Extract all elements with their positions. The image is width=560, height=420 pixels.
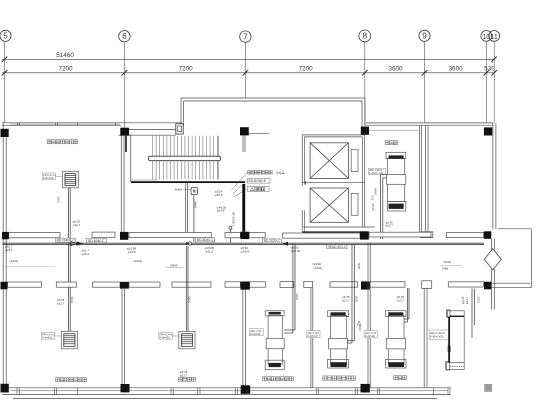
beam line office top bbox=[369, 129, 419, 131]
partition wall room4/room5 (pipes crossing corridor) bbox=[368, 243, 370, 388]
columns bottom wall bbox=[1, 384, 370, 394]
pipe label boxes bbox=[56, 238, 348, 249]
svg-text:7200: 7200 bbox=[58, 66, 73, 73]
svg-text:7: 7 bbox=[243, 32, 248, 41]
svg-text:DN40: DN40 bbox=[444, 260, 452, 264]
svg-text:K-9×410: K-9×410 bbox=[160, 336, 171, 340]
svg-text:φ25.4: φ25.4 bbox=[82, 252, 90, 256]
svg-text:φ12.7: φ12.7 bbox=[73, 223, 81, 227]
svg-text:BD-B040-C: BD-B040-C bbox=[197, 238, 214, 242]
dimension lines bbox=[2, 59, 495, 73]
svg-text:(2444): (2444) bbox=[314, 266, 323, 270]
lower corridor wall segments bbox=[8, 281, 484, 289]
room1 label bbox=[56, 378, 87, 382]
svg-text:2M40: 2M40 bbox=[170, 264, 178, 268]
elevator car 1 bbox=[310, 143, 348, 179]
svg-text:1-BD0E-0B: 1-BD0E-0B bbox=[232, 212, 236, 226]
svg-text:150C: 150C bbox=[358, 324, 362, 331]
pipe from top-left FCU down bbox=[69, 188, 71, 331]
room5 AHU pipes bbox=[404, 288, 409, 322]
svg-text:7200: 7200 bbox=[298, 66, 313, 73]
grid bubbles row bbox=[0, 30, 500, 42]
riser labels near stair bbox=[248, 171, 286, 192]
room4 AHU bbox=[328, 311, 349, 368]
svg-text:3600: 3600 bbox=[388, 66, 403, 73]
diamond symbol bbox=[484, 249, 501, 270]
room2 pipe down bbox=[186, 246, 188, 331]
svg-text:5: 5 bbox=[3, 32, 8, 41]
svg-text:K-40×20: K-40×20 bbox=[307, 334, 318, 338]
svg-text:150C: 150C bbox=[477, 296, 481, 303]
partition wall room2/room3 (with pipes) bbox=[243, 290, 246, 386]
thick black riser pair bbox=[242, 184, 245, 232]
left exterior wall bbox=[3, 123, 6, 392]
svg-text:φ50.8: φ50.8 bbox=[215, 193, 223, 197]
room3 AHU label bbox=[249, 329, 263, 336]
svg-text:φ31.8: φ31.8 bbox=[206, 250, 214, 254]
stair treads bbox=[153, 136, 218, 180]
svg-text:7200: 7200 bbox=[178, 66, 193, 73]
wall line to right box bbox=[492, 282, 530, 284]
svg-text:11: 11 bbox=[491, 34, 498, 41]
svg-text:φ12.7: φ12.7 bbox=[342, 298, 350, 302]
wall foot bbox=[420, 232, 432, 238]
terrace line below bbox=[13, 398, 437, 400]
stair bottom wall (dark) bbox=[131, 181, 245, 183]
svg-text:K-40×20: K-40×20 bbox=[365, 334, 376, 338]
grid vertical lines bbox=[5, 41, 495, 128]
top window band C (right) bbox=[366, 123, 493, 125]
elevator door recess 2 bbox=[351, 194, 358, 216]
svg-text:φ19.05: φ19.05 bbox=[291, 249, 301, 253]
svg-text:φ25.4: φ25.4 bbox=[5, 248, 13, 252]
partition wall room1/room2 bbox=[122, 289, 125, 388]
svg-text:φ9.05: φ9.05 bbox=[217, 209, 225, 213]
svg-text:9: 9 bbox=[422, 32, 427, 41]
svg-text:10: 10 bbox=[482, 34, 490, 41]
dimension texts bbox=[56, 52, 495, 73]
svg-text:φ12.7: φ12.7 bbox=[180, 373, 188, 377]
dimension tick slashes bbox=[2, 57, 497, 76]
stairwell west wall below col6 bbox=[121, 134, 131, 232]
svg-text:JW×××41×C: JW×××41×C bbox=[430, 331, 445, 335]
upper corridor wall segments bbox=[9, 232, 484, 238]
shaft middle tick bbox=[305, 181, 307, 185]
partition wall room5 east bbox=[424, 288, 427, 387]
svg-text:BD-B040-C: BD-B040-C bbox=[88, 239, 105, 243]
small phi texts along main bbox=[5, 244, 301, 255]
main pipe run (double) bbox=[3, 242, 485, 244]
dim texts corridor bbox=[10, 259, 452, 271]
valve box near stair lobby bbox=[175, 187, 198, 194]
room1 fan coil label bbox=[41, 333, 61, 340]
room4 corridor pipe drop mid bbox=[352, 244, 354, 343]
svg-text:150C: 150C bbox=[70, 296, 74, 303]
columns top wall bbox=[1, 127, 493, 137]
office AHU unit bbox=[386, 152, 406, 211]
room3 AHU bbox=[265, 311, 284, 370]
room4 AHU pipes bbox=[347, 341, 355, 343]
riser pipe stub below col6 bbox=[125, 136, 127, 152]
window mullions bottom bbox=[17, 387, 450, 396]
room2 label bbox=[178, 377, 195, 381]
office east wall (double pair) bbox=[420, 125, 429, 232]
room5 AHU bbox=[386, 311, 407, 368]
room4 AHU label bbox=[307, 331, 321, 338]
partition wall room3/room4 bbox=[311, 288, 313, 388]
grey legend square bottom-right bbox=[484, 384, 492, 392]
svg-text:51460: 51460 bbox=[56, 52, 74, 59]
elevator car 2 bbox=[310, 188, 348, 222]
svg-text:8: 8 bbox=[363, 32, 368, 41]
wall stub below col7 bbox=[243, 135, 245, 152]
room3 AHU pipes bbox=[284, 244, 295, 333]
room6 AHU label bbox=[429, 330, 448, 340]
svg-text:3050: 3050 bbox=[355, 295, 359, 302]
svg-text:150C: 150C bbox=[295, 293, 299, 300]
svg-text:φ6.35: φ6.35 bbox=[371, 203, 375, 211]
right exterior wall bbox=[493, 123, 496, 229]
elevator door recess 1 bbox=[351, 150, 358, 172]
svg-text:K-9×410: K-9×410 bbox=[43, 176, 54, 180]
svg-text:7450: 7450 bbox=[442, 267, 449, 271]
right room top box bbox=[491, 229, 531, 288]
svg-text:DN40: DN40 bbox=[374, 187, 378, 195]
svg-text:BD-2020-C: BD-2020-C bbox=[264, 239, 281, 243]
svg-text:φ12.7: φ12.7 bbox=[397, 298, 405, 302]
room6 AHU (right) bbox=[446, 310, 465, 370]
bottom window band bbox=[2, 388, 450, 395]
room2 fan coil label bbox=[159, 333, 179, 340]
leader lines bbox=[232, 173, 248, 198]
svg-text:φ12.7: φ12.7 bbox=[465, 296, 469, 304]
room5 AHU label bbox=[364, 331, 378, 338]
columns upper corridor wall bbox=[2, 231, 491, 239]
svg-text:150C: 150C bbox=[188, 296, 192, 303]
office room label bbox=[385, 141, 398, 145]
svg-text:φ31.8: φ31.8 bbox=[128, 250, 136, 254]
machine room roof box (top centre) bbox=[181, 98, 365, 128]
svg-text:2M40: 2M40 bbox=[194, 201, 198, 208]
svg-text:K-9×410: K-9×410 bbox=[42, 336, 53, 340]
svg-text:(2444): (2444) bbox=[134, 259, 143, 263]
column wrap square at stair corner bbox=[176, 124, 183, 134]
elevator shaft bbox=[302, 135, 374, 232]
lobby east line bbox=[249, 132, 269, 134]
svg-text:φ19.05: φ19.05 bbox=[241, 250, 251, 254]
riser circle bbox=[229, 226, 232, 229]
svg-text:150C: 150C bbox=[57, 196, 61, 203]
svg-text:3M60: 3M60 bbox=[175, 187, 183, 191]
stair edge right bbox=[217, 136, 219, 180]
shaft bottom dark edge bbox=[302, 231, 360, 233]
office AHU label bbox=[368, 168, 385, 175]
stair north wall (col6 to wrap) bbox=[118, 130, 176, 136]
top-left room label bbox=[47, 140, 78, 144]
svg-text:φ12.7: φ12.7 bbox=[386, 224, 394, 228]
svg-text:HEAD-403-C: HEAD-403-C bbox=[328, 245, 347, 249]
stair handrail bbox=[149, 156, 221, 161]
svg-text:2040: 2040 bbox=[357, 262, 361, 269]
room5 label bbox=[394, 376, 407, 380]
svg-text:φ12.7: φ12.7 bbox=[57, 301, 65, 305]
svg-text:3600: 3600 bbox=[448, 66, 463, 73]
valve at junction bbox=[188, 242, 191, 245]
room3 label bbox=[263, 377, 294, 381]
top-left room fan coil bbox=[63, 171, 79, 188]
lobby wall bbox=[186, 183, 188, 232]
svg-text:(3444): (3444) bbox=[10, 259, 19, 263]
svg-text:530: 530 bbox=[484, 66, 495, 73]
diamond pipes bbox=[491, 239, 494, 310]
room1 fan coil bbox=[61, 331, 77, 349]
columns lower corridor wall bbox=[1, 281, 492, 289]
room6 pipes bbox=[472, 289, 474, 339]
svg-text:BD-BO60-E: BD-BO60-E bbox=[249, 179, 267, 183]
svg-text:K-40×20: K-40×20 bbox=[250, 332, 261, 336]
svg-text:K-40×2×20: K-40×2×20 bbox=[430, 334, 444, 338]
room2 fan coil bbox=[179, 331, 195, 349]
svg-text:(3444): (3444) bbox=[313, 262, 322, 266]
top window band A (left) bbox=[2, 123, 182, 126]
svg-text:(N): (N) bbox=[277, 171, 281, 175]
fan coil label top-left bbox=[43, 173, 63, 180]
valve box pipe down bbox=[193, 195, 195, 243]
flow arrows on main bbox=[71, 241, 288, 245]
stair landing line bbox=[131, 179, 158, 181]
svg-text:6: 6 bbox=[122, 32, 127, 41]
office AHU pipes bbox=[380, 175, 382, 239]
room4 label bbox=[323, 376, 356, 380]
